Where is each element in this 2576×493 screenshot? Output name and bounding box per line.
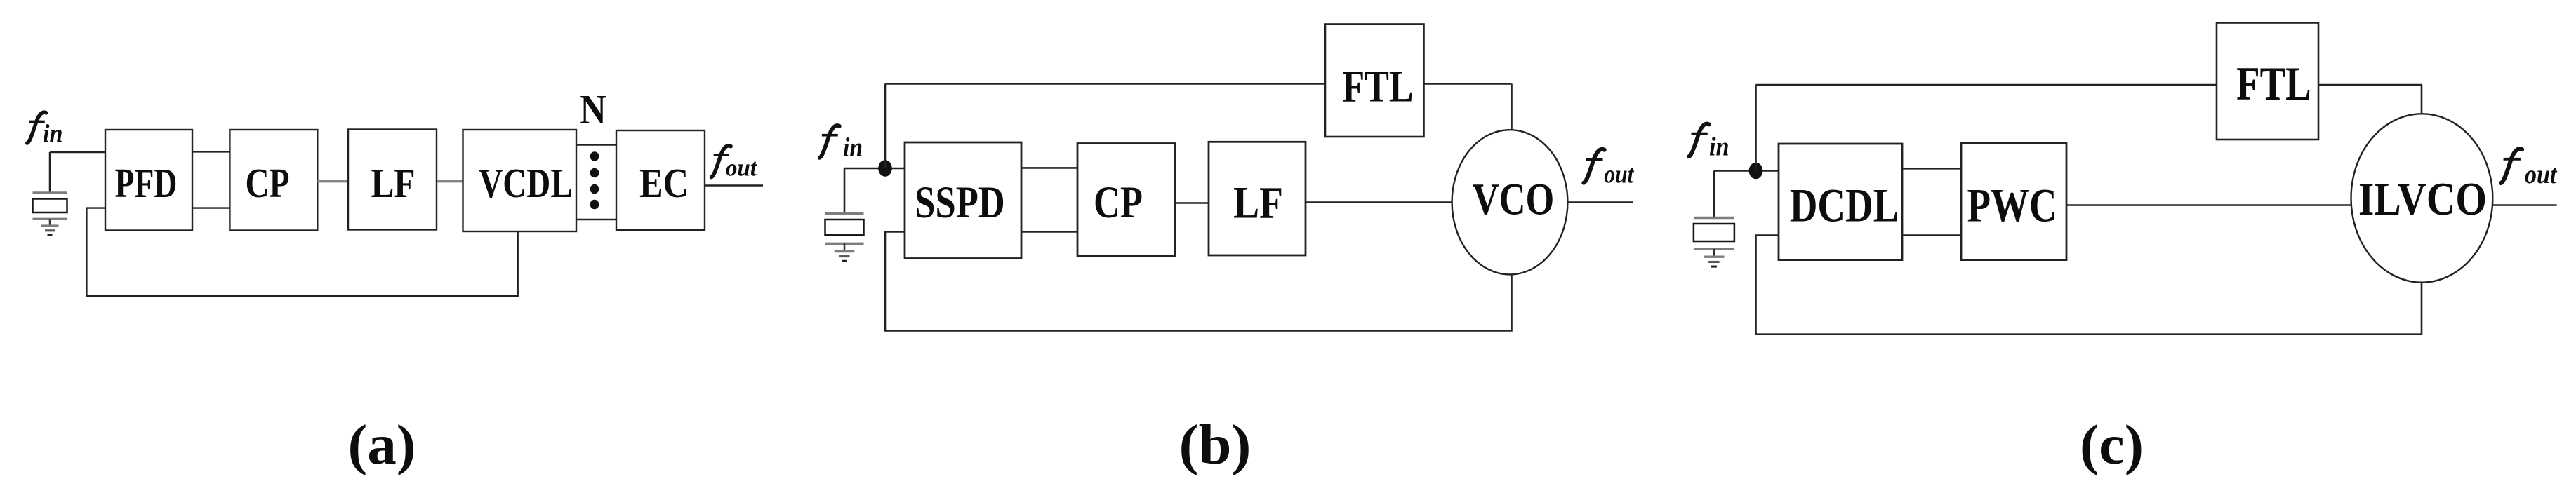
label f_out (c) : f	[2499, 147, 2525, 185]
label f_out (b) : f	[1582, 148, 1607, 184]
svg-text:FTL: FTL	[2236, 57, 2311, 110]
wire DCDL-PWC top	[1902, 168, 1961, 170]
svg-text:LF: LF	[371, 160, 416, 206]
block DCDL	[1779, 144, 1902, 260]
label f_out (a) : f	[710, 144, 733, 179]
wire f_in to PFD (a)	[50, 151, 105, 153]
block FTL (b)	[1325, 25, 1424, 137]
svg-text:out: out	[2525, 160, 2558, 189]
oscillator VCO	[1452, 130, 1568, 274]
feedback wire VCO to node (b)	[885, 231, 1512, 330]
wire VCO output (b)	[1567, 201, 1633, 203]
label f_in (b) : f	[818, 124, 841, 159]
wire down into VCO (b)	[1511, 84, 1513, 130]
svg-text:LF: LF	[1233, 178, 1283, 229]
svg-text:(c): (c)	[2080, 413, 2144, 476]
bus dot 2	[590, 168, 599, 178]
node junction dot (b)	[878, 160, 892, 177]
label f_in (c) : f	[1687, 123, 1711, 158]
block LF (a)	[348, 130, 437, 230]
svg-text:(a): (a)	[348, 413, 416, 476]
block SSPD	[905, 142, 1021, 259]
wire VCDL-EC top bus line	[576, 144, 616, 145]
svg-text:in: in	[843, 133, 863, 162]
wire PWC to ILVCO	[2066, 204, 2351, 205]
crystal X1 (a)	[33, 152, 67, 235]
wire down into ILVCO (c)	[2421, 85, 2423, 114]
wire EC output (a)	[705, 184, 763, 186]
wire PFD-CP bottom (a)	[192, 207, 230, 208]
svg-text:CP: CP	[1094, 177, 1143, 228]
wire PFD-CP top (a)	[192, 151, 230, 152]
bus dot 4	[590, 200, 599, 210]
block PWC	[1961, 143, 2066, 260]
svg-text:SSPD: SSPD	[915, 177, 1005, 228]
wire CP-LF (a)	[317, 180, 348, 183]
feedback wire ILVCO to node (c)	[1756, 236, 2422, 335]
svg-text:ILVCO: ILVCO	[2358, 173, 2487, 225]
svg-text:DCDL: DCDL	[1790, 179, 1899, 232]
crystal X1 (c)	[1694, 171, 1734, 267]
block VCDL	[463, 130, 577, 231]
node junction dot (c)	[1749, 163, 1763, 180]
wire FTL to ILVCO top (c)	[2318, 84, 2422, 86]
block EC	[616, 130, 705, 230]
block CP (b)	[1077, 144, 1175, 257]
bus dot 1	[590, 151, 599, 161]
svg-text:PWC: PWC	[1967, 179, 2057, 232]
wire LF to VCO (b)	[1306, 201, 1452, 203]
wire top run to FTL (c)	[1756, 84, 2217, 86]
svg-text:N: N	[580, 86, 606, 133]
wire DCDL-PWC bottom	[1902, 234, 1961, 236]
label f_in (a) : f	[25, 111, 48, 144]
block FTL (c)	[2217, 23, 2318, 140]
wire LF-VCDL (a)	[437, 180, 463, 183]
svg-text:in: in	[43, 119, 63, 147]
crystal X1 (b)	[825, 168, 864, 261]
block PFD	[105, 130, 192, 231]
svg-text:VCO: VCO	[1473, 175, 1555, 225]
feedback wire VCDL to PFD (a)	[86, 208, 517, 296]
svg-text:VCDL: VCDL	[479, 160, 573, 206]
svg-text:CP: CP	[246, 160, 290, 206]
oscillator ILVCO	[2351, 114, 2493, 282]
wire top run to FTL (b)	[885, 83, 1325, 84]
svg-text:(b): (b)	[1179, 413, 1252, 476]
svg-text:FTL: FTL	[1342, 62, 1414, 112]
block CP (a)	[230, 130, 317, 231]
bus dot 3	[590, 184, 599, 194]
svg-text:in: in	[1709, 132, 1729, 161]
svg-text:EC: EC	[639, 160, 689, 206]
svg-text:out: out	[1604, 160, 1634, 189]
block LF (b)	[1209, 142, 1306, 255]
wire ILVCO output (c)	[2492, 204, 2556, 205]
wire CP-LF (b)	[1175, 202, 1209, 204]
wire VCDL-EC bottom bus line	[576, 219, 616, 220]
wire f_in to DCDL (c)	[1714, 170, 1779, 172]
svg-text:out: out	[726, 154, 757, 181]
wire FTL to VCO top (b)	[1424, 83, 1512, 84]
wire f_in to SSPD (b)	[844, 168, 905, 170]
wire node up to FTL line (b)	[884, 84, 887, 169]
wire SSPD-CP bottom (b)	[1021, 231, 1077, 233]
svg-text:PFD: PFD	[115, 160, 178, 206]
wire SSPD-CP top (b)	[1021, 167, 1077, 169]
wire node up to FTL line (c)	[1755, 85, 1757, 171]
